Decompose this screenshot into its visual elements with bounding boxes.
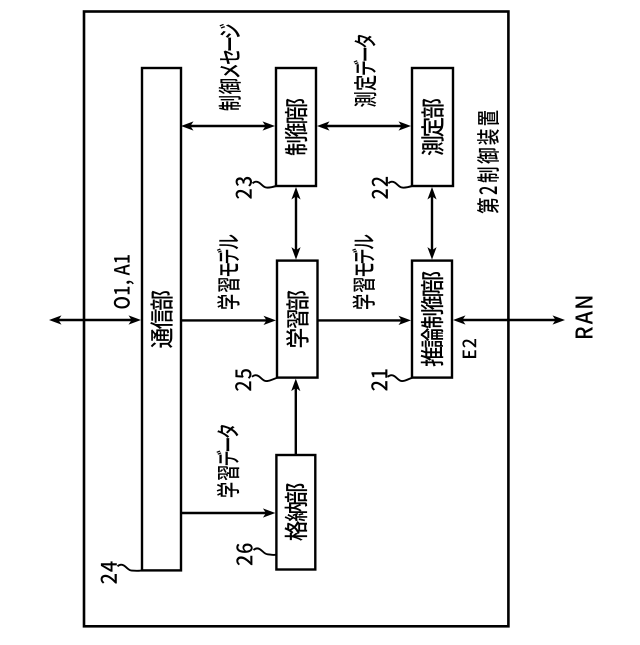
label O1, A1 bbox=[114, 255, 134, 308]
wire 測定部-推論制御部 vertical bidirectional arrow bbox=[427, 187, 436, 260]
label RAN bbox=[576, 297, 593, 338]
label 第2制御装置 bbox=[477, 111, 499, 214]
label 学習部 bbox=[286, 291, 309, 347]
ref number 25 bbox=[235, 369, 251, 391]
ref number 24 bbox=[101, 561, 117, 583]
label 測定部 bbox=[421, 99, 444, 156]
wire 通信部-学習部 arrow (学習モデル) bbox=[181, 316, 276, 325]
outer border: 第2制御装置 enclosure bbox=[84, 12, 508, 627]
wire 推論制御部-RAN bidirectional arrow (E2) bbox=[453, 315, 565, 324]
wire 学習部-推論制御部 arrow (学習モデル) bbox=[319, 316, 412, 325]
label 格納部 bbox=[285, 483, 308, 540]
leader squiggle 22 bbox=[388, 182, 412, 188]
ref number 21 bbox=[371, 369, 387, 390]
box 測定部 (22) bbox=[412, 68, 453, 186]
wire 格納部-学習部 arrow bbox=[291, 379, 300, 455]
box 通信部 (24) bbox=[142, 68, 181, 570]
box 制御部 (23) bbox=[276, 68, 316, 186]
leader squiggle 24 bbox=[118, 565, 143, 571]
label E2 bbox=[462, 339, 476, 358]
box 格納部 (26) bbox=[276, 455, 315, 570]
box 推論制御部 (21) bbox=[412, 261, 452, 378]
label 制御メセージ bbox=[219, 24, 241, 111]
ref number 26 bbox=[236, 544, 252, 566]
label 学習モデル (right) bbox=[352, 235, 375, 309]
label 学習モデル (left) bbox=[217, 235, 240, 309]
label 推論制御部 bbox=[421, 272, 444, 367]
wire 制御部-学習部 vertical bidirectional arrow bbox=[291, 187, 300, 260]
label 学習データ bbox=[216, 425, 239, 497]
wire 制御部-測定部 bidirectional arrow (測定データ) bbox=[317, 121, 411, 130]
wire 通信部-格納部 arrow (学習データ) bbox=[181, 508, 275, 517]
leader squiggle 23 bbox=[253, 182, 277, 188]
leader squiggle 25 bbox=[252, 375, 278, 381]
ref number 22 bbox=[372, 177, 388, 199]
label 測定データ bbox=[354, 35, 377, 107]
O1/A1 external bidirectional arrow bbox=[49, 315, 141, 324]
label 通信部 bbox=[150, 291, 172, 348]
label 制御部 bbox=[285, 99, 308, 156]
box 学習部 (25) bbox=[277, 261, 318, 378]
ref number 23 bbox=[236, 177, 252, 199]
wire 通信部-制御部 bidirectional arrow (制御メセージ) bbox=[181, 121, 275, 130]
leader squiggle 26 bbox=[254, 548, 277, 555]
leader squiggle 21 bbox=[388, 375, 413, 381]
